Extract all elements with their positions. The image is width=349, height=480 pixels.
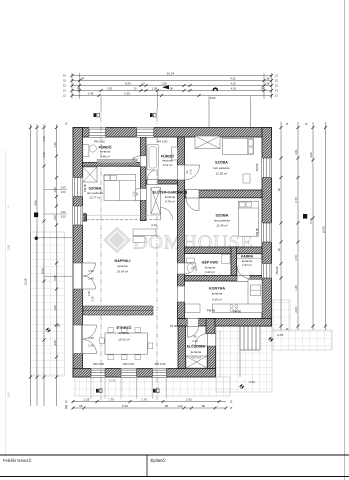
svg-text:kerámia: kerámia bbox=[119, 331, 130, 335]
svg-text:lam.parketta: lam.parketta bbox=[214, 166, 230, 170]
svg-text:2.40: 2.40 bbox=[88, 344, 94, 348]
svg-text:SZOBA: SZOBA bbox=[216, 213, 229, 217]
svg-text:Felelős tervező:: Felelős tervező: bbox=[3, 458, 32, 463]
svg-text:kerámia: kerámia bbox=[100, 150, 111, 154]
svg-text:1.50: 1.50 bbox=[53, 215, 57, 221]
svg-text:.90: .90 bbox=[278, 188, 281, 192]
svg-text:.38: .38 bbox=[164, 404, 168, 408]
svg-text:.38: .38 bbox=[76, 86, 80, 90]
svg-text:13.98: 13.98 bbox=[8, 244, 11, 251]
svg-text:.58: .58 bbox=[79, 404, 83, 408]
svg-text:1.00: 1.00 bbox=[53, 305, 57, 311]
svg-text:SZOBA: SZOBA bbox=[215, 160, 228, 164]
svg-text:2.10: 2.10 bbox=[133, 157, 136, 162]
svg-text:1.98: 1.98 bbox=[161, 81, 167, 85]
svg-text:1.00: 1.00 bbox=[60, 186, 66, 190]
svg-text:2.10: 2.10 bbox=[133, 191, 136, 196]
svg-text:NAPPALI: NAPPALI bbox=[115, 259, 131, 263]
svg-text:19.04 m²: 19.04 m² bbox=[117, 270, 128, 274]
svg-text:lam.parketta: lam.parketta bbox=[87, 191, 103, 195]
svg-text:3.20: 3.20 bbox=[107, 86, 113, 90]
svg-text:2.10: 2.10 bbox=[91, 296, 95, 302]
svg-text:PM 3.00: PM 3.00 bbox=[123, 362, 134, 366]
svg-text:±0.00: ±0.00 bbox=[170, 324, 178, 328]
svg-text:3.01: 3.01 bbox=[294, 149, 298, 155]
svg-text:Építtető:: Építtető: bbox=[151, 458, 166, 463]
svg-text:1.00: 1.00 bbox=[60, 210, 66, 214]
svg-text:PM 3.00: PM 3.00 bbox=[155, 362, 166, 366]
svg-text:kerámia: kerámia bbox=[191, 350, 202, 354]
svg-text:PM 90: PM 90 bbox=[275, 266, 279, 274]
svg-text:1.25: 1.25 bbox=[84, 397, 90, 401]
svg-text:2.10: 2.10 bbox=[195, 265, 198, 270]
svg-text:4.00: 4.00 bbox=[33, 200, 37, 206]
svg-text:5.74: 5.74 bbox=[309, 218, 313, 224]
svg-text:3.00: 3.00 bbox=[53, 340, 57, 346]
svg-text:-0.52: -0.52 bbox=[277, 333, 284, 337]
svg-text:10.50: 10.50 bbox=[322, 226, 326, 233]
svg-text:2.70: 2.70 bbox=[294, 197, 298, 203]
svg-text:10.34: 10.34 bbox=[167, 71, 175, 75]
svg-text:1.40: 1.40 bbox=[294, 285, 298, 291]
svg-text:1.50: 1.50 bbox=[60, 190, 66, 194]
svg-text:2.40: 2.40 bbox=[53, 275, 57, 281]
svg-text:1.97 m²: 1.97 m² bbox=[242, 263, 252, 267]
svg-text:2.04: 2.04 bbox=[294, 307, 298, 313]
svg-text:4.20: 4.20 bbox=[230, 76, 236, 80]
svg-text:3.22 m²: 3.22 m² bbox=[205, 270, 215, 274]
svg-text:kerámia: kerámia bbox=[162, 159, 173, 163]
svg-text:.90: .90 bbox=[278, 248, 281, 252]
svg-text:1.40: 1.40 bbox=[53, 142, 57, 148]
svg-text:PM 90: PM 90 bbox=[255, 163, 259, 171]
svg-text:4.20: 4.20 bbox=[231, 86, 237, 90]
svg-text:.58: .58 bbox=[201, 404, 205, 408]
svg-text:9.15 m²: 9.15 m² bbox=[212, 297, 222, 301]
svg-text:PM 90: PM 90 bbox=[83, 184, 87, 192]
svg-text:ELŐTÉR+GARDERÓB: ELŐTÉR+GARDERÓB bbox=[153, 189, 188, 194]
svg-text:kerámia: kerámia bbox=[117, 264, 128, 268]
svg-text:13.29: 13.29 bbox=[24, 278, 28, 285]
svg-text:1.40: 1.40 bbox=[88, 91, 94, 95]
svg-text:1.98: 1.98 bbox=[152, 86, 158, 90]
svg-text:GÉP l/WC: GÉP l/WC bbox=[202, 259, 219, 264]
svg-text:kerámia: kerámia bbox=[242, 259, 253, 263]
svg-text:.38: .38 bbox=[266, 81, 270, 85]
svg-text:5.69: 5.69 bbox=[210, 96, 216, 100]
svg-text:.58: .58 bbox=[169, 86, 173, 90]
svg-text:1.40: 1.40 bbox=[42, 136, 46, 142]
svg-text:.38: .38 bbox=[80, 76, 84, 80]
svg-text:1.00: 1.00 bbox=[87, 290, 91, 296]
svg-text:PM 3.80: PM 3.80 bbox=[157, 140, 168, 144]
svg-text:2.91: 2.91 bbox=[186, 397, 192, 401]
svg-text:9.20: 9.20 bbox=[125, 81, 131, 85]
svg-text:8.50: 8.50 bbox=[40, 268, 44, 274]
svg-text:PM 90: PM 90 bbox=[255, 228, 259, 236]
svg-text:1.70: 1.70 bbox=[108, 397, 114, 401]
svg-text:PM 3.00: PM 3.00 bbox=[93, 362, 104, 366]
svg-text:1.22: 1.22 bbox=[177, 404, 183, 408]
svg-text:1.70: 1.70 bbox=[141, 397, 147, 401]
svg-text:KONYHA: KONYHA bbox=[209, 286, 225, 290]
svg-text:PM 90: PM 90 bbox=[233, 309, 242, 313]
svg-text:+2.43: +2.43 bbox=[109, 380, 116, 383]
svg-text:.38: .38 bbox=[260, 86, 264, 90]
svg-text:11.49 m²: 11.49 m² bbox=[216, 224, 227, 228]
svg-text:kerámia: kerámia bbox=[165, 195, 176, 199]
svg-text:1.50: 1.50 bbox=[88, 336, 94, 340]
svg-text:FÜRDŐ: FÜRDŐ bbox=[98, 144, 111, 149]
svg-text:16.32 m²: 16.32 m² bbox=[118, 337, 129, 341]
svg-text:1.50: 1.50 bbox=[88, 269, 94, 273]
svg-text:1.50: 1.50 bbox=[60, 214, 66, 218]
svg-text:.38: .38 bbox=[266, 76, 270, 80]
svg-text:3.10: 3.10 bbox=[42, 152, 46, 158]
svg-text:4.48 m²: 4.48 m² bbox=[100, 155, 110, 159]
svg-text:kerámia: kerámia bbox=[205, 265, 216, 269]
svg-text:KAMRA: KAMRA bbox=[241, 254, 254, 258]
svg-text:ÉTKEZŐ: ÉTKEZŐ bbox=[117, 325, 132, 330]
svg-text:1.50: 1.50 bbox=[53, 187, 57, 193]
svg-text:2.10: 2.10 bbox=[189, 169, 192, 174]
svg-text:2.40: 2.40 bbox=[192, 339, 198, 343]
svg-text:2.40: 2.40 bbox=[88, 277, 94, 281]
svg-text:3.00: 3.00 bbox=[309, 152, 313, 158]
svg-text:5.20: 5.20 bbox=[122, 404, 128, 408]
svg-text:2.40: 2.40 bbox=[8, 392, 11, 397]
svg-text:6.78 m²: 6.78 m² bbox=[165, 200, 175, 204]
svg-text:5.11 m²: 5.11 m² bbox=[163, 163, 173, 167]
svg-text:PM 3.82: PM 3.82 bbox=[94, 140, 105, 144]
svg-text:SZOBA: SZOBA bbox=[89, 186, 102, 190]
svg-text:PM 90: PM 90 bbox=[207, 308, 216, 312]
svg-text:4.20: 4.20 bbox=[230, 81, 236, 85]
svg-text:12.77 m²: 12.77 m² bbox=[89, 196, 100, 200]
svg-text:90: 90 bbox=[194, 334, 197, 338]
svg-text:2.10: 2.10 bbox=[151, 223, 157, 227]
svg-text:12.28 m²: 12.28 m² bbox=[216, 171, 227, 175]
svg-text:-0.52: -0.52 bbox=[248, 380, 255, 384]
svg-text:2.70: 2.70 bbox=[294, 255, 298, 261]
svg-text:4.27 m²: 4.27 m² bbox=[191, 355, 201, 359]
svg-text:lam.parketta: lam.parketta bbox=[214, 218, 230, 222]
svg-text:PM 90: PM 90 bbox=[83, 212, 87, 220]
svg-text:kerámia: kerámia bbox=[212, 292, 223, 296]
svg-text:3.25: 3.25 bbox=[124, 91, 130, 95]
svg-text:ELŐSZOBA: ELŐSZOBA bbox=[187, 343, 206, 348]
